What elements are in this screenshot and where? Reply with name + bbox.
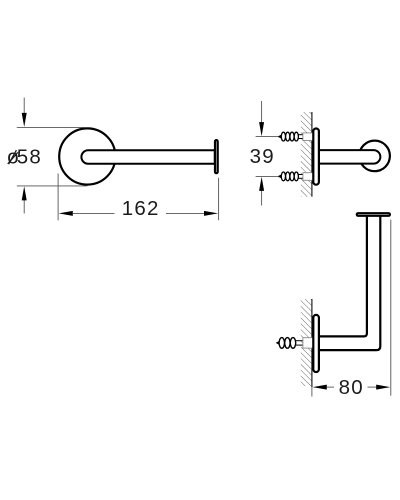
wall section (hatched) xyxy=(301,299,312,386)
svg-text:162: 162 xyxy=(122,197,160,220)
extension line right xyxy=(390,220,392,396)
bar end disc (edge view, right end) xyxy=(215,140,218,173)
extension line left xyxy=(57,174,59,221)
extension line bottom xyxy=(256,175,278,177)
screw bottom xyxy=(277,172,313,181)
extension line top xyxy=(256,136,278,138)
wall plate (edge view, bottom) xyxy=(313,315,319,372)
wall surface line xyxy=(311,112,313,197)
svg-text:58: 58 xyxy=(17,145,42,168)
dimension line right part + arrow xyxy=(368,386,377,388)
dimension line + arrow below xyxy=(261,191,263,206)
extension line right xyxy=(218,178,220,221)
wall plate (front view circle) xyxy=(59,128,115,184)
roll holder arm (front) xyxy=(81,150,214,163)
spare roll disc (edge view, top cap) xyxy=(357,213,390,216)
svg-text:80: 80 xyxy=(339,376,364,399)
wall surface line xyxy=(311,299,313,397)
dimension line left part + arrow xyxy=(59,211,73,216)
dimension line + arrow below xyxy=(23,200,25,214)
svg-text:39: 39 xyxy=(250,145,275,168)
end disc (face view circle) xyxy=(359,141,390,172)
extension line bottom xyxy=(17,185,88,187)
dimension line left part + arrow xyxy=(313,385,327,390)
dimension line + arrow above xyxy=(261,101,263,124)
holder arm (L-shape, outer line) xyxy=(319,217,380,351)
dimension 39 xyxy=(250,101,278,206)
dimension ø58 xyxy=(7,98,88,214)
dimension line right part + arrow xyxy=(166,212,205,214)
wall section (hatched) xyxy=(301,112,312,197)
screw (bottom view) xyxy=(276,338,314,349)
wall plate (edge view, top-right) xyxy=(313,129,319,185)
extension line top xyxy=(17,126,88,128)
screw top xyxy=(277,132,313,141)
holder arm (L-shape, inner line) xyxy=(319,217,367,337)
dimension 162 xyxy=(58,174,219,221)
dimension line + arrow above xyxy=(23,98,25,115)
holder arm (side view) xyxy=(319,150,380,164)
dimension 80 xyxy=(313,220,391,400)
